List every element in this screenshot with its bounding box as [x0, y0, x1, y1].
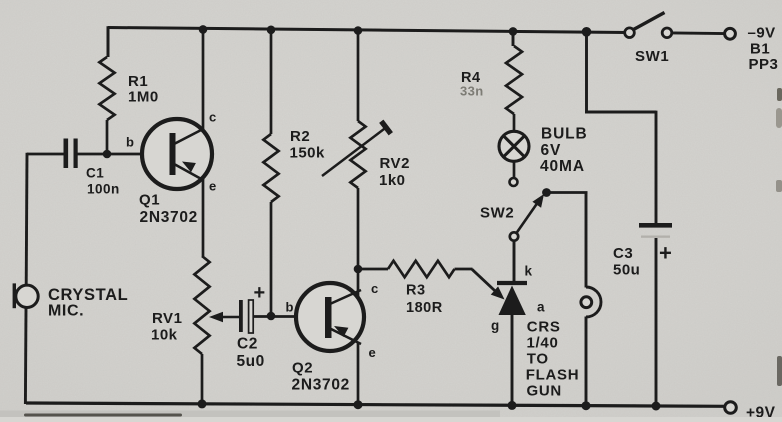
svg-text:+: +: [659, 241, 672, 266]
svg-text:C1: C1: [86, 166, 104, 181]
svg-text:PP3: PP3: [749, 56, 779, 73]
svg-text:b: b: [126, 135, 134, 150]
svg-text:RV2: RV2: [380, 155, 410, 172]
svg-text:6V: 6V: [541, 142, 562, 159]
svg-text:+: +: [254, 282, 266, 304]
svg-text:R3: R3: [406, 283, 426, 299]
svg-text:e: e: [209, 179, 217, 194]
svg-text:MIC.: MIC.: [48, 303, 84, 320]
svg-text:1k0: 1k0: [379, 172, 406, 189]
svg-text:CRYSTAL: CRYSTAL: [48, 286, 128, 304]
svg-text:1M0: 1M0: [128, 89, 159, 106]
svg-text:C2: C2: [237, 336, 258, 353]
svg-text:180R: 180R: [406, 300, 443, 316]
svg-text:2N3702: 2N3702: [292, 377, 351, 394]
svg-text:FLASH: FLASH: [526, 367, 580, 384]
svg-text:TO: TO: [527, 351, 549, 368]
svg-text:c: c: [371, 281, 379, 296]
svg-text:SW2: SW2: [480, 205, 514, 222]
svg-text:B1: B1: [750, 41, 770, 58]
svg-text:5u0: 5u0: [237, 353, 265, 370]
svg-text:a: a: [537, 300, 545, 315]
svg-text:50u: 50u: [613, 262, 640, 279]
svg-text:c: c: [209, 110, 217, 125]
svg-text:Q1: Q1: [139, 192, 160, 209]
svg-text:100n: 100n: [87, 182, 120, 197]
svg-text:+9V: +9V: [746, 404, 776, 417]
svg-text:g: g: [491, 318, 500, 333]
svg-text:1/40: 1/40: [527, 335, 559, 352]
svg-text:2N3702: 2N3702: [140, 209, 199, 226]
svg-text:BULB: BULB: [541, 125, 588, 142]
svg-text:–9V: –9V: [748, 25, 776, 42]
svg-text:40MA: 40MA: [540, 158, 585, 175]
svg-text:SW1: SW1: [635, 48, 669, 65]
svg-text:R2: R2: [290, 128, 310, 145]
svg-text:33n: 33n: [460, 84, 484, 99]
svg-text:Q2: Q2: [292, 360, 313, 377]
svg-text:10k: 10k: [151, 327, 178, 344]
svg-text:R1: R1: [128, 73, 148, 90]
svg-text:C3: C3: [613, 245, 633, 262]
svg-text:e: e: [369, 345, 377, 360]
svg-text:b: b: [286, 300, 294, 315]
svg-text:CRS: CRS: [527, 318, 561, 335]
svg-text:GUN: GUN: [527, 383, 562, 400]
svg-text:150k: 150k: [290, 145, 326, 162]
svg-text:k: k: [525, 264, 533, 279]
svg-text:RV1: RV1: [152, 310, 182, 327]
